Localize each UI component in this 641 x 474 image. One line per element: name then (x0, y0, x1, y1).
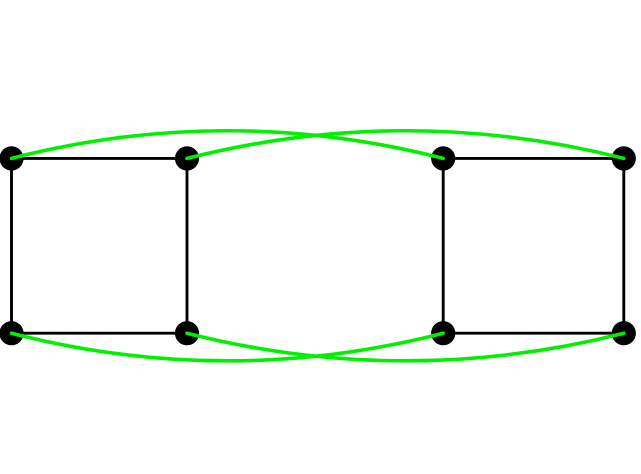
node n5 (0, 321, 24, 345)
green curved edge n1-n3 (12, 131, 444, 159)
wire black edge n1-n5 (10, 158, 13, 333)
wire black edge n4-n8 (622, 158, 625, 333)
node n2 (175, 146, 199, 170)
wire black edge n3-n7 (442, 158, 445, 333)
green curved edge n5-n7 (12, 333, 444, 361)
green curved edge n6-n8 (187, 333, 624, 361)
wire black edge n5-n6 (12, 332, 188, 335)
node n7 (431, 321, 455, 345)
green curved edge n2-n4 (187, 131, 624, 159)
node n8 (612, 321, 636, 345)
wire black edge n3-n4 (443, 157, 624, 160)
wire black edge n2-n6 (186, 158, 189, 333)
node n1 (0, 146, 24, 170)
node n4 (612, 146, 636, 170)
wire black edge n7-n8 (443, 332, 624, 335)
node n3 (431, 146, 455, 170)
wire black edge n1-n2 (12, 157, 188, 160)
node n6 (175, 321, 199, 345)
